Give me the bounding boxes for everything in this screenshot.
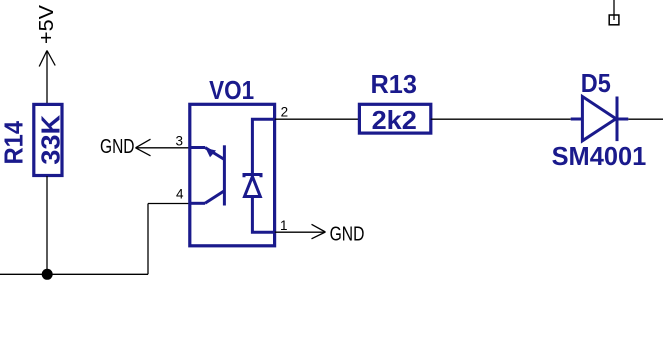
wire +5V vertical xyxy=(46,51,48,104)
svg-text:R14: R14 xyxy=(0,120,29,164)
diode D5 xyxy=(571,97,629,142)
emitter arrow of VO1 xyxy=(206,148,217,157)
svg-text:1: 1 xyxy=(280,218,288,233)
wire riser to pin 4 xyxy=(147,204,149,275)
op-coupler box VO1 xyxy=(190,104,275,246)
photodiode (LED) of VO1 xyxy=(244,119,275,232)
wire bottom horizontal xyxy=(0,273,148,275)
phototransistor of VO1 xyxy=(190,145,225,205)
svg-text:SM4001: SM4001 xyxy=(552,141,647,171)
svg-text:VO1: VO1 xyxy=(209,75,254,105)
junction dot xyxy=(42,269,53,280)
off-page connector square xyxy=(609,0,619,25)
resistor R14 xyxy=(34,104,62,175)
svg-text:33K: 33K xyxy=(35,115,65,165)
svg-text:2: 2 xyxy=(281,105,289,120)
power arrow +5V xyxy=(39,51,55,67)
wire pin 2 xyxy=(275,118,360,120)
wire R14 to junction xyxy=(46,176,48,274)
wire pin 4 xyxy=(148,203,190,205)
svg-text:R13: R13 xyxy=(371,69,418,99)
ground arrow GND right xyxy=(312,224,326,239)
wire R13 to D5 xyxy=(431,118,571,120)
ground arrow GND left xyxy=(136,139,191,156)
svg-text:+5V: +5V xyxy=(36,4,58,44)
resistor R13 xyxy=(359,104,430,133)
svg-text:GND: GND xyxy=(330,223,365,245)
svg-text:GND: GND xyxy=(100,136,135,158)
wire pin 1 xyxy=(275,231,326,233)
svg-text:D5: D5 xyxy=(581,68,611,98)
svg-text:3: 3 xyxy=(175,134,183,149)
svg-text:2k2: 2k2 xyxy=(372,105,417,135)
wire D5 to right edge xyxy=(628,118,663,120)
svg-text:4: 4 xyxy=(176,187,184,202)
